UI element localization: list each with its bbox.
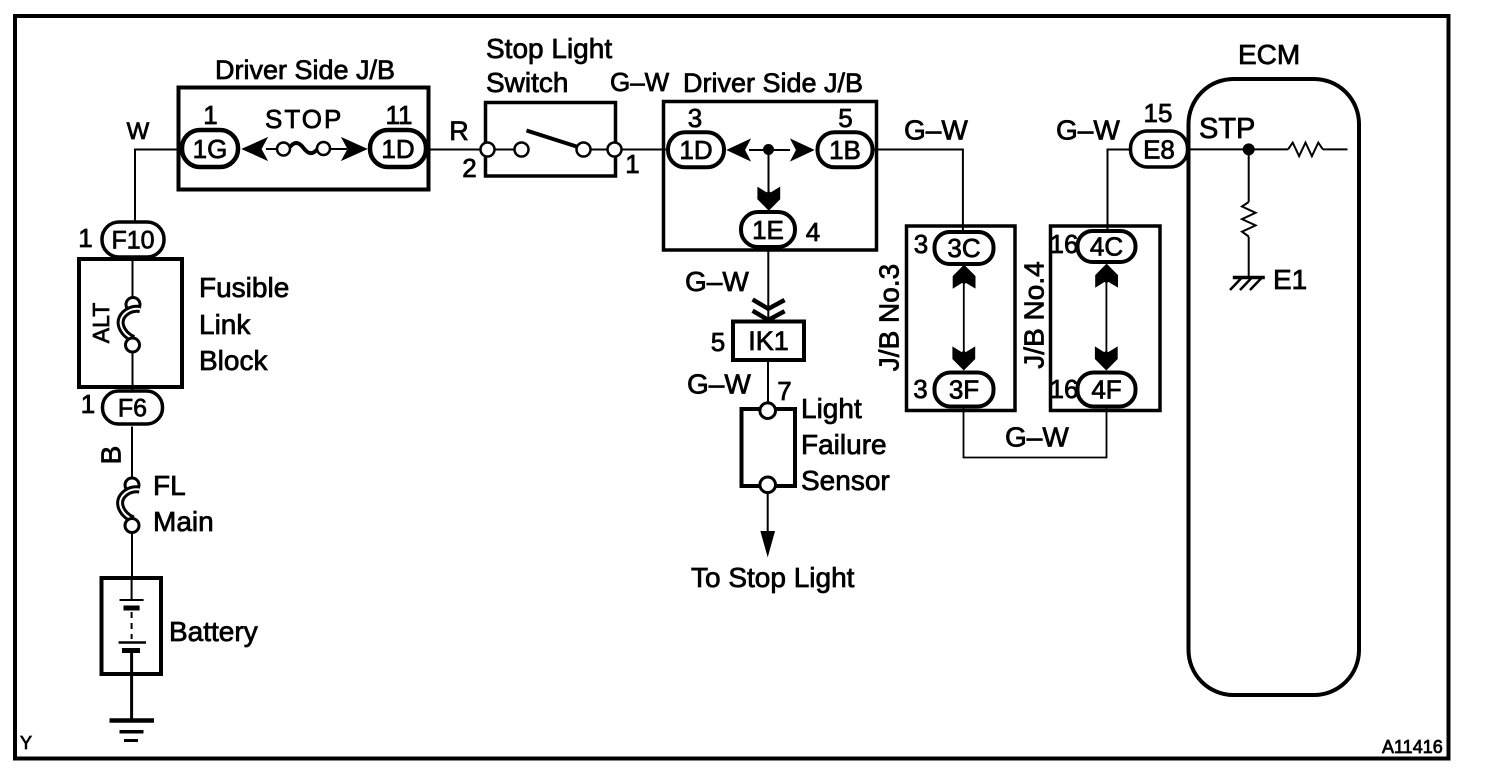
- junction node: [763, 144, 774, 155]
- svg-text:Battery: Battery: [169, 616, 258, 647]
- svg-text:3F: 3F: [949, 375, 979, 405]
- wire resistor to ground: [1248, 237, 1250, 278]
- wire node to resistor: [1254, 148, 1288, 150]
- svg-text:J/B No.4: J/B No.4: [1019, 261, 1050, 368]
- driver side J/B box 1: [179, 88, 429, 190]
- svg-text:4F: 4F: [1091, 375, 1121, 405]
- resistor (pull-up): [1288, 143, 1323, 157]
- connector 1B: [818, 132, 873, 167]
- connector IK1: [733, 322, 804, 361]
- light failure sensor: [742, 403, 796, 493]
- svg-text:G–W: G–W: [1005, 422, 1069, 453]
- ground (battery): [110, 721, 155, 741]
- svg-text:ALT: ALT: [88, 303, 114, 343]
- resistor (to ground): [1242, 202, 1256, 237]
- arrow up (4C): [1096, 264, 1118, 287]
- svg-text:1B: 1B: [829, 135, 861, 165]
- connector 1E: [741, 212, 795, 247]
- arrow to 1D: [728, 140, 751, 161]
- svg-text:1G: 1G: [193, 134, 228, 164]
- wire node to arrow: [773, 149, 790, 151]
- connector 3F: [935, 373, 994, 407]
- svg-text:2: 2: [462, 153, 476, 183]
- J/B No.3 box: [907, 226, 1016, 411]
- svg-text:Sensor: Sensor: [801, 465, 890, 496]
- svg-text:B: B: [96, 446, 127, 465]
- ECM box: [1189, 79, 1360, 695]
- connector 1G: [182, 130, 238, 167]
- wire 1B to 3C: [875, 150, 963, 232]
- wire E8 to node: [1189, 148, 1244, 150]
- ground E1 (chassis): [1230, 278, 1265, 291]
- wire battery to ground: [130, 674, 133, 719]
- svg-text:1: 1: [78, 223, 92, 253]
- wire 1D to switch: [429, 149, 487, 151]
- svg-text:1: 1: [81, 389, 95, 419]
- svg-text:1D: 1D: [679, 135, 712, 165]
- svg-text:A11416: A11416: [1382, 737, 1443, 757]
- svg-text:16: 16: [1050, 374, 1079, 404]
- connector F6: [103, 391, 163, 424]
- battery: [102, 578, 162, 674]
- wire W to 1G: [135, 150, 180, 222]
- svg-text:Failure: Failure: [801, 429, 887, 460]
- svg-text:G–W: G–W: [610, 67, 670, 97]
- svg-text:FL: FL: [153, 470, 186, 501]
- arrow up (3C): [953, 265, 975, 288]
- svg-text:R: R: [449, 116, 469, 146]
- arrow down (3F): [953, 347, 975, 370]
- connector 1D (left J/B): [370, 130, 426, 167]
- arrow to stop light: [761, 532, 774, 556]
- driver side J/B box 2: [664, 102, 877, 251]
- svg-text:STOP: STOP: [265, 104, 343, 134]
- svg-text:3C: 3C: [947, 233, 980, 263]
- svg-text:W: W: [127, 118, 150, 145]
- connector 4F: [1078, 373, 1136, 407]
- svg-text:Driver Side J/B: Driver Side J/B: [215, 55, 395, 85]
- J/B No.4 box: [1051, 226, 1161, 411]
- wire FL Main to battery: [131, 533, 133, 579]
- svg-text:4C: 4C: [1090, 232, 1123, 262]
- stop light switch box: [486, 103, 616, 177]
- svg-text:7: 7: [777, 376, 791, 406]
- fuse FL Main: [120, 478, 139, 533]
- svg-text:To Stop Light: To Stop Light: [691, 562, 855, 593]
- svg-text:11: 11: [386, 100, 413, 130]
- svg-text:G–W: G–W: [685, 266, 749, 297]
- arrow to 1E: [758, 188, 780, 211]
- svg-text:F6: F6: [118, 395, 147, 423]
- fuse ALT: [121, 298, 140, 353]
- svg-text:Link: Link: [199, 309, 251, 340]
- svg-text:ECM: ECM: [1238, 39, 1300, 70]
- fuse STOP: [243, 138, 367, 160]
- wire sensor out: [767, 493, 769, 534]
- wire 1E down: [767, 249, 769, 322]
- wire node down: [1248, 154, 1250, 202]
- label Light Failure Sensor: [801, 393, 890, 496]
- wire 3C to 3F: [963, 283, 965, 352]
- svg-text:16: 16: [1050, 229, 1079, 259]
- arrow down (4F): [1095, 347, 1117, 370]
- svg-text:4: 4: [806, 217, 820, 247]
- svg-text:Switch: Switch: [486, 67, 568, 98]
- svg-text:E1: E1: [1273, 264, 1307, 295]
- svg-text:Y: Y: [20, 733, 32, 753]
- wire F6 to FL Main: [131, 427, 133, 479]
- wire resistor right: [1323, 148, 1348, 150]
- wire node down to 1E: [768, 154, 770, 193]
- svg-text:Light: Light: [801, 393, 862, 424]
- svg-text:G–W: G–W: [687, 369, 751, 400]
- wire switch to 1D: [622, 149, 668, 151]
- svg-text:Fusible: Fusible: [199, 272, 289, 303]
- svg-text:J/B No.3: J/B No.3: [874, 264, 905, 371]
- label FL Main: [153, 470, 214, 537]
- svg-text:Block: Block: [199, 345, 268, 376]
- svg-text:Driver Side J/B: Driver Side J/B: [683, 68, 863, 98]
- label Fusible Link Block: [199, 272, 289, 376]
- svg-text:IK1: IK1: [748, 326, 789, 356]
- svg-text:G–W: G–W: [1056, 115, 1120, 146]
- wire IK1 to sensor: [767, 361, 769, 404]
- svg-text:3: 3: [914, 229, 928, 259]
- svg-text:1E: 1E: [752, 215, 784, 245]
- junction node STP: [1243, 143, 1255, 155]
- svg-text:15: 15: [1144, 98, 1173, 128]
- svg-text:Stop Light: Stop Light: [486, 33, 612, 64]
- svg-text:5: 5: [838, 103, 852, 133]
- connector 3C: [935, 232, 994, 264]
- arrow to 1B: [791, 140, 814, 161]
- svg-text:Main: Main: [153, 506, 214, 537]
- wire 3F to 4F: [964, 408, 1107, 458]
- svg-text:1: 1: [625, 149, 639, 179]
- svg-text:E8: E8: [1143, 135, 1175, 165]
- svg-text:1: 1: [203, 100, 217, 130]
- svg-text:3: 3: [913, 374, 927, 404]
- svg-text:F10: F10: [111, 227, 154, 255]
- wire 4C to E8: [1108, 150, 1131, 232]
- wire arrow to node: [749, 149, 764, 151]
- svg-text:3: 3: [688, 103, 702, 133]
- svg-text:1D: 1D: [381, 134, 414, 164]
- connector E8: [1131, 131, 1188, 167]
- fusible link block box: [79, 259, 182, 387]
- svg-text:5: 5: [711, 327, 725, 357]
- label Stop Light Switch: [486, 33, 612, 98]
- connector F10: [102, 222, 164, 257]
- connector 4C: [1078, 231, 1136, 262]
- switch contacts: [481, 131, 622, 157]
- wire fuse ALT to F6: [132, 352, 134, 390]
- svg-text:STP: STP: [1199, 113, 1255, 145]
- wire F10 to fuse ALT: [132, 259, 134, 298]
- wire 4C to 4F: [1105, 282, 1107, 352]
- svg-text:G–W: G–W: [904, 115, 968, 146]
- connector 1D (right J/B): [668, 132, 724, 167]
- splice chevrons: [753, 300, 785, 321]
